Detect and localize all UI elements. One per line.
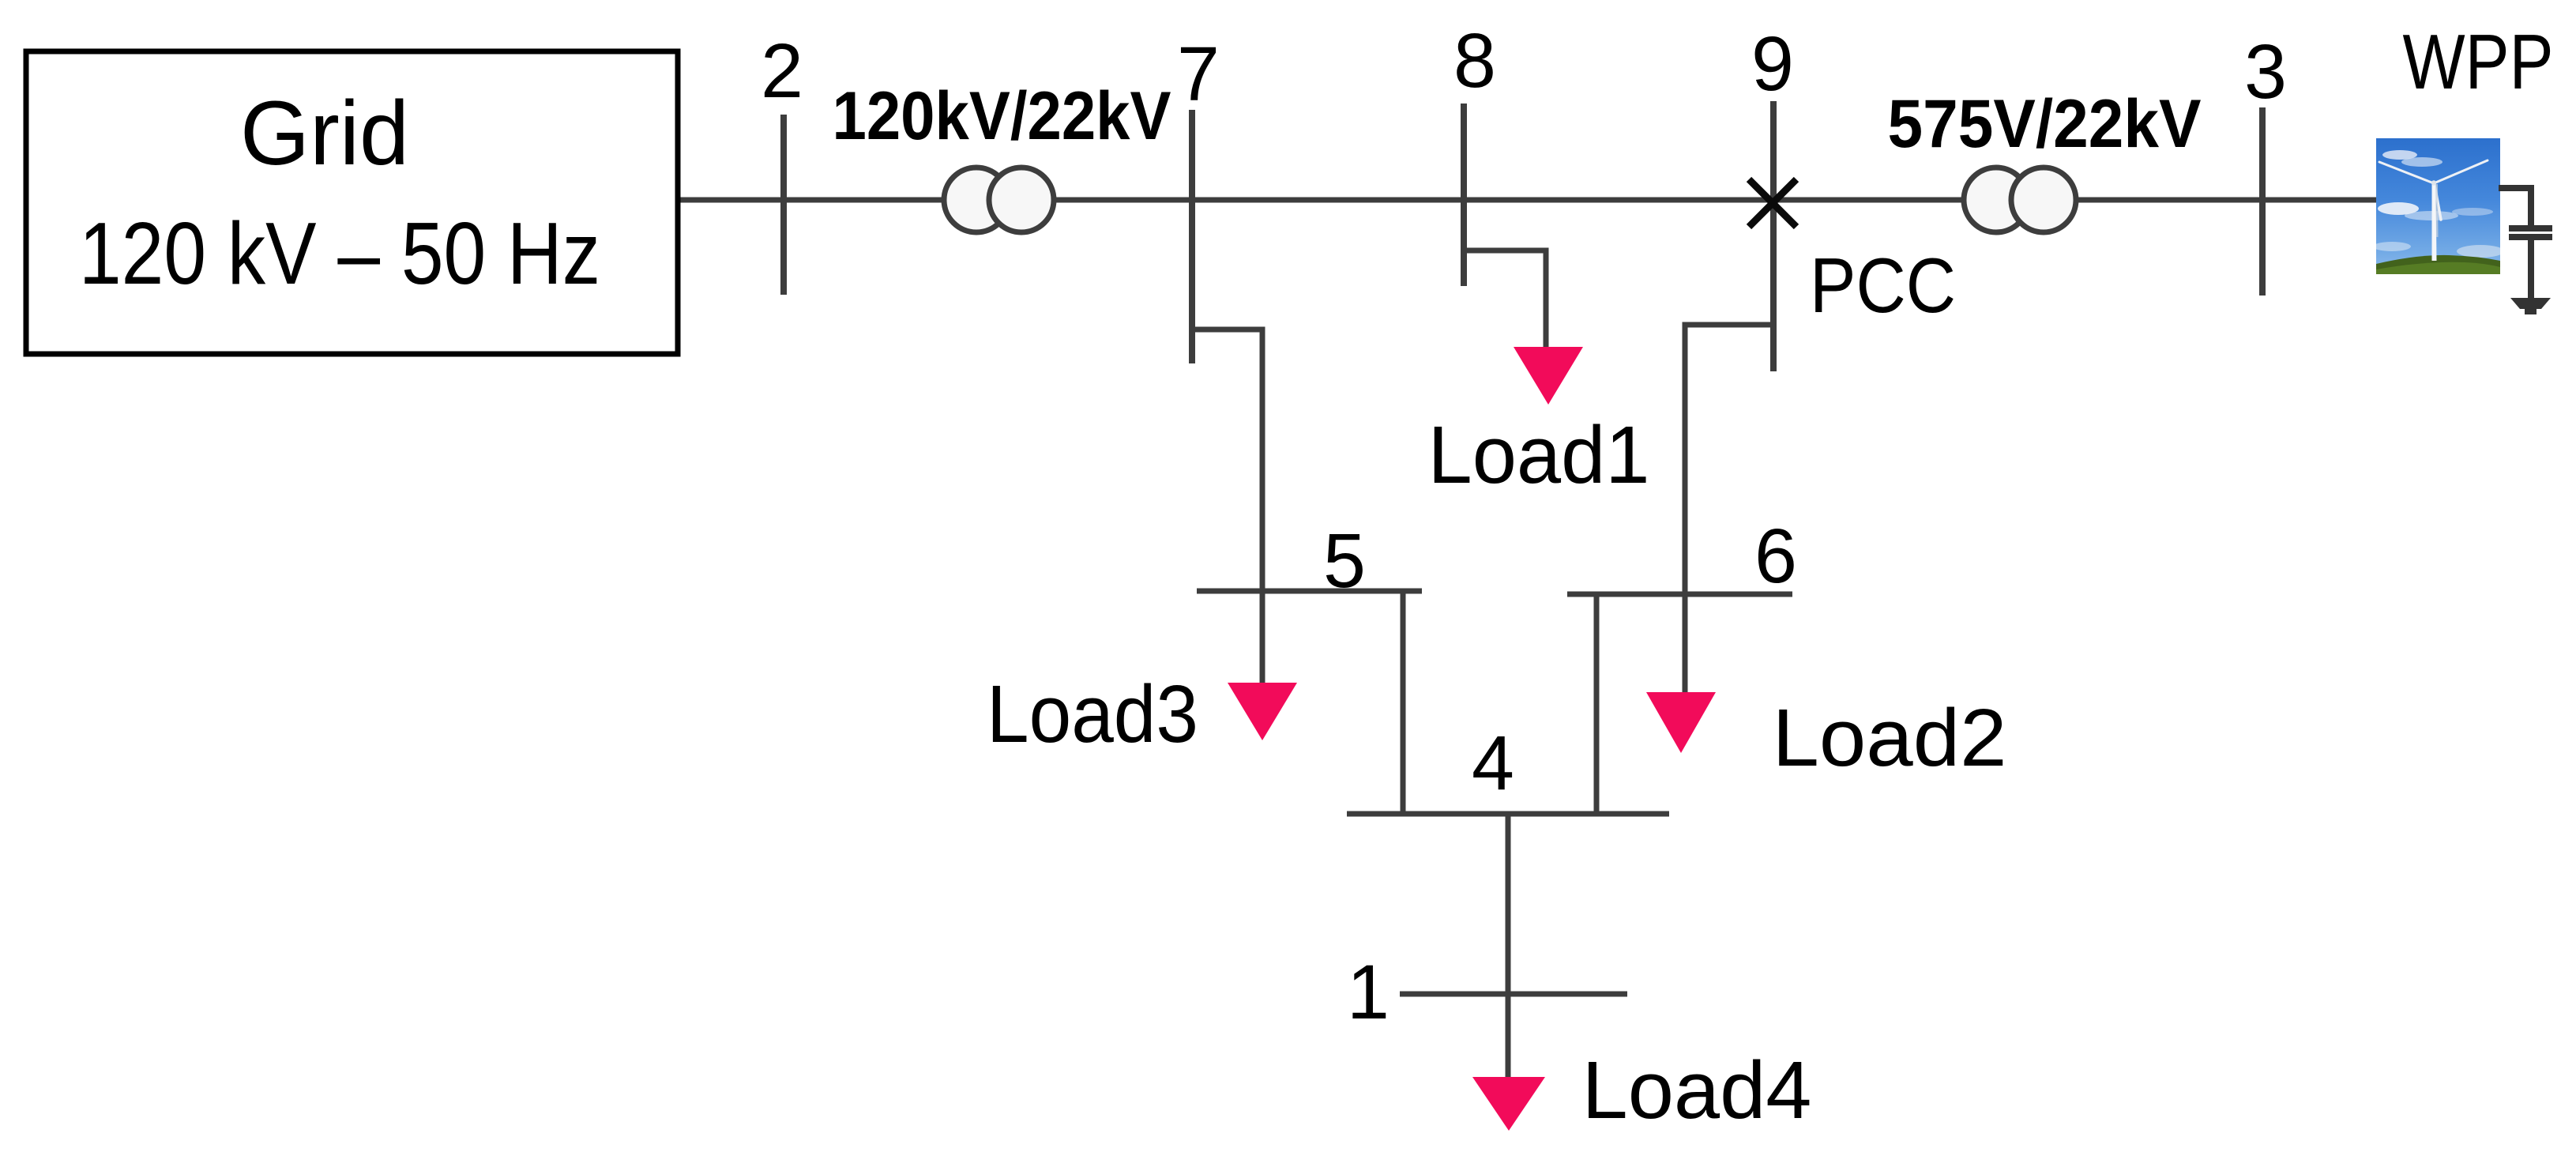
- grid source box: [26, 51, 678, 354]
- svg-text:120 kV – 50 Hz: 120 kV – 50 Hz: [79, 205, 600, 303]
- wire bus8 step down to Load1: [1464, 250, 1546, 348]
- svg-text:Load4: Load4: [1582, 1045, 1812, 1135]
- WPP wind turbine picture: [2373, 138, 2504, 274]
- load arrow Load3: [1228, 683, 1297, 740]
- svg-text:6: 6: [1754, 513, 1797, 599]
- load arrow Load1: [1514, 347, 1583, 405]
- capacitor C: [2509, 225, 2552, 232]
- svg-text:575V/22kV: 575V/22kV: [1888, 86, 2202, 162]
- svg-text:1: 1: [1347, 949, 1390, 1035]
- transformer T2 575V/22kV: [1964, 168, 2029, 232]
- load arrow Load4: [1472, 1077, 1545, 1131]
- bus 2: [780, 115, 787, 295]
- transformer T1 120kV/22kV: [944, 168, 1009, 232]
- bus 6: [1567, 592, 1792, 597]
- svg-text:2: 2: [761, 28, 803, 114]
- wire WPP to capacitor: [2499, 188, 2531, 227]
- bus 5: [1197, 589, 1422, 594]
- bus 9: [1770, 101, 1777, 371]
- svg-text:9: 9: [1751, 21, 1794, 107]
- bus 3: [2259, 107, 2266, 296]
- svg-text:8: 8: [1453, 17, 1496, 104]
- svg-text:Load1: Load1: [1428, 409, 1650, 500]
- svg-text:PCC: PCC: [1810, 242, 1956, 329]
- bus 4: [1347, 811, 1669, 817]
- wire bus6 down to bus4: [1594, 594, 1600, 814]
- svg-text:Load2: Load2: [1773, 692, 2007, 783]
- svg-text:WPP: WPP: [2403, 18, 2554, 105]
- bus 1: [1400, 992, 1627, 997]
- wire bus7 step down to bus 5 and Load3: [1192, 329, 1262, 684]
- breaker X at PCC: [1749, 179, 1796, 227]
- wire bus4 down through bus1 to Load4: [1506, 814, 1511, 1079]
- ground: [2510, 298, 2551, 314]
- bus 8: [1461, 104, 1467, 286]
- svg-text:4: 4: [1472, 720, 1514, 806]
- svg-text:3: 3: [2244, 28, 2287, 115]
- svg-text:Grid: Grid: [240, 83, 409, 184]
- load arrow Load2: [1646, 692, 1716, 753]
- wire capacitor to ground: [2528, 240, 2534, 299]
- wire main horizontal bus from Grid to WPP: [680, 198, 2376, 203]
- wire bus5 down to bus4: [1401, 591, 1406, 814]
- svg-text:5: 5: [1323, 518, 1366, 604]
- svg-text:Load3: Load3: [987, 668, 1198, 759]
- bus 7: [1189, 110, 1195, 363]
- svg-text:7: 7: [1177, 31, 1220, 117]
- wire bus9 step down to bus 6 and Load2: [1685, 325, 1773, 694]
- svg-text:120kV/22kV: 120kV/22kV: [833, 78, 1171, 154]
